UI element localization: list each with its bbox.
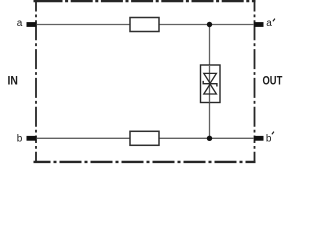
svg-text:b: b [266,134,272,145]
terminal a' stub [254,22,264,27]
suppressor diode D1 top triangle [204,73,217,83]
label a' prime [273,19,275,22]
suppressor diode D1 box [201,65,221,103]
svg-text:a: a [266,18,272,29]
terminal b' stub [254,136,264,141]
wire vertical branch [209,25,211,139]
svg-text:OUT: OUT [263,74,283,87]
wire a-a' (top line) [36,24,255,26]
terminal b stub [27,136,37,141]
enclosure border right (dash-dot) [254,1,256,162]
suppressor diode D1 zener bar [203,81,217,87]
label b' prime [272,132,274,135]
wire b-b' (bottom line) [36,137,255,139]
resistor R2 (bottom series impedance) [130,131,159,145]
terminal a stub [27,22,37,27]
svg-text:b: b [17,134,23,145]
enclosure border top (dash-dot) [34,0,256,2]
enclosure border bottom (dash-dot) [34,161,256,163]
resistor R1 (top series impedance) [130,18,159,32]
svg-text:IN: IN [8,74,18,87]
suppressor diode D1 lead through box [209,65,211,103]
suppressor diode D1 bottom triangle [204,84,217,94]
svg-text:a: a [17,18,23,29]
enclosure border left (dash-dot) [35,1,37,162]
junction node on wire a [207,22,212,27]
junction node on wire b [207,136,212,141]
